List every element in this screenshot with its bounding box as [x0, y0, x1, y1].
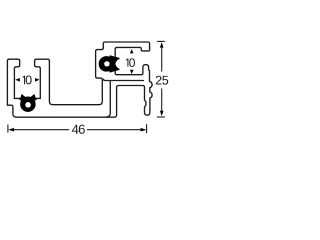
left arrow of 10 — [15, 78, 19, 82]
25 dim line — [157, 41, 165, 117]
down arrow of right 10 — [130, 70, 134, 74]
25 down arrowhead — [160, 111, 164, 117]
dim text 10 left — [23, 75, 32, 84]
46 dim line — [8, 124, 147, 133]
leg left face — [106, 81, 110, 117]
dim text 10 right — [126, 58, 135, 67]
46 right arrowhead — [141, 128, 147, 132]
right arrow of 10 — [35, 78, 40, 82]
46 left arrowhead — [9, 128, 15, 132]
25 text — [156, 76, 168, 85]
46 text — [72, 125, 85, 134]
left gasket body — [19, 93, 38, 112]
right gasket body — [99, 55, 121, 72]
arm bottom edge — [103, 79, 144, 81]
25 up arrowhead — [160, 42, 164, 48]
up arrow of right 10 — [130, 49, 134, 53]
profile outline main loop — [7, 42, 152, 117]
